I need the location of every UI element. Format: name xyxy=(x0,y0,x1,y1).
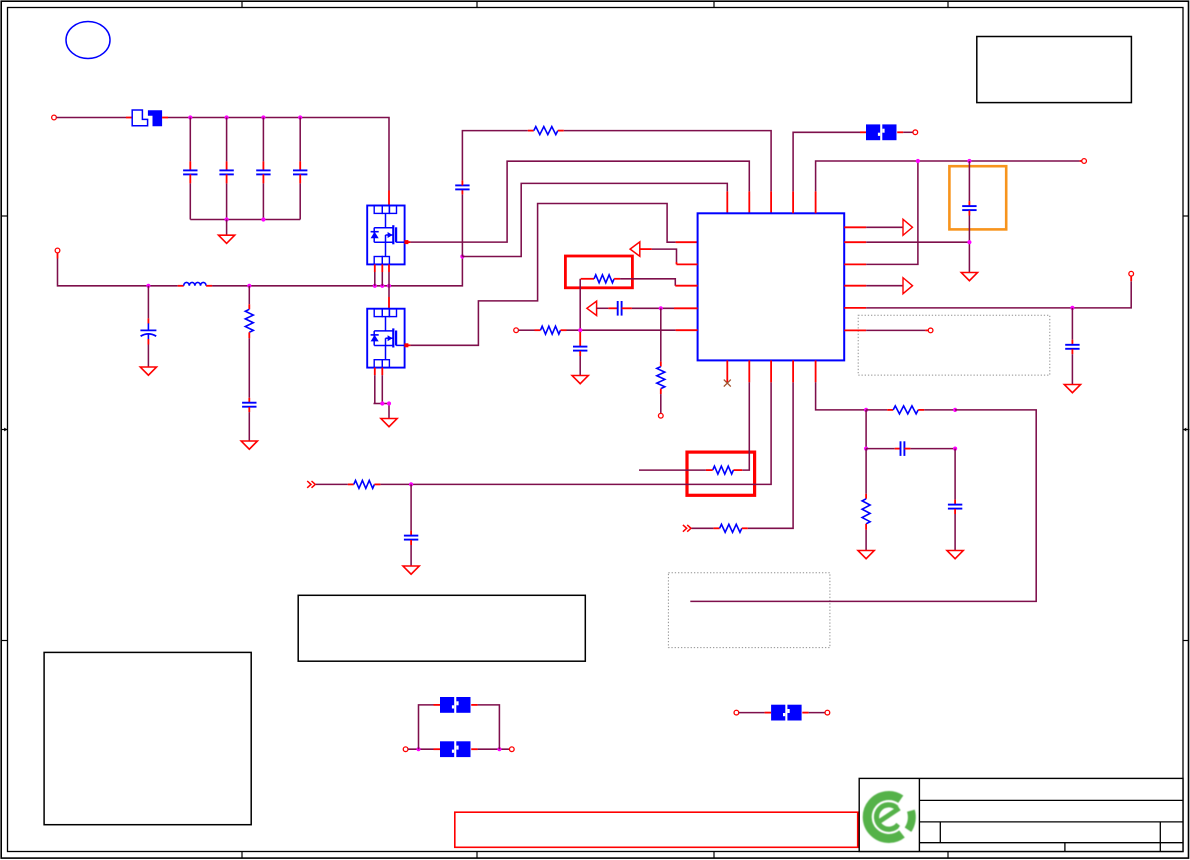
wire Q2 leg2 xyxy=(381,368,383,404)
no-connect pin xyxy=(724,360,731,386)
junction VIN rail 1 xyxy=(188,115,192,119)
wire R8 to U1 xyxy=(742,360,793,528)
ground GND5 xyxy=(572,376,588,384)
junction SW C5 xyxy=(146,284,150,288)
wire comp res down xyxy=(865,449,867,499)
ground GND6 xyxy=(961,273,977,281)
border center arrow left xyxy=(1,428,8,432)
capacitor C10 xyxy=(962,206,976,210)
wire comp to R9 xyxy=(866,409,893,411)
junction Q2 gnd 2 xyxy=(387,401,391,405)
junction FB xyxy=(578,328,582,332)
ground GND10 xyxy=(947,551,963,559)
junction C10 branch xyxy=(967,240,971,244)
wire C1 bottom xyxy=(189,174,191,219)
wire C5 branch xyxy=(147,286,149,324)
wire Q2 leg1 xyxy=(374,368,376,404)
port P4 xyxy=(514,328,519,333)
capacitor C14 xyxy=(948,505,962,509)
wire Q1 leg2 xyxy=(381,264,383,285)
port P5 xyxy=(1082,159,1087,164)
resistor R4 xyxy=(657,367,665,389)
capacitor C11 xyxy=(1065,345,1079,349)
wire R2 to U1 BST xyxy=(558,131,771,214)
wire C3 bottom xyxy=(262,174,264,219)
junction gnd rail 2 xyxy=(261,217,265,221)
wire L1 right pin xyxy=(206,285,212,287)
wire Q2 gate xyxy=(404,204,697,348)
resistor R5 xyxy=(541,326,561,334)
port P12 xyxy=(825,710,830,715)
wire C9 gnd xyxy=(579,351,581,376)
highlight orange box C10 xyxy=(949,166,1006,229)
wire SW sense to U1 xyxy=(462,183,727,256)
note rect center xyxy=(298,595,585,661)
jumper J3 xyxy=(440,741,471,757)
wire N2 to C8 xyxy=(597,307,618,309)
junction VIN rail 4 xyxy=(298,115,302,119)
fuse F1 xyxy=(132,110,162,126)
wire C2 bottom xyxy=(226,174,228,219)
junction J3 right xyxy=(497,747,501,751)
wire P9 to J3 xyxy=(408,748,440,750)
wire comp long xyxy=(690,410,1036,602)
jumper J4 xyxy=(440,697,471,713)
dashed box bottom xyxy=(668,573,830,648)
ground GND9 xyxy=(858,551,874,559)
wire C10 down xyxy=(968,211,970,273)
junction SW leg1 xyxy=(373,284,377,288)
wire R5 to U1 FB xyxy=(561,329,698,331)
junction VOUT xyxy=(1070,306,1074,310)
wire gnd stem xyxy=(226,220,228,236)
note rect top-right xyxy=(977,37,1132,103)
junction comp 2 xyxy=(953,408,957,412)
wire comp cap down xyxy=(954,449,956,505)
chevron port N6 xyxy=(683,525,691,532)
wire C1 top xyxy=(189,118,191,171)
junction N5 cap xyxy=(409,482,413,486)
wire C11 gnd xyxy=(1071,349,1073,384)
capacitor C9 xyxy=(573,347,587,351)
resistor R6 xyxy=(713,466,734,474)
ground GND4 xyxy=(381,419,397,427)
wire C2 top xyxy=(226,118,228,171)
transistor Q1 xyxy=(367,206,404,265)
resistor R7 xyxy=(354,480,375,488)
junction N2 xyxy=(659,306,663,310)
chevron port N5 xyxy=(307,481,315,488)
wire N2 resistor xyxy=(660,308,662,366)
junction comp 1 xyxy=(864,408,868,412)
ground GND2 xyxy=(140,367,156,375)
junction SW boot xyxy=(460,254,464,258)
wire P1 to F1 xyxy=(57,117,133,119)
wire C14 gnd xyxy=(954,509,956,551)
wire J4 loop right xyxy=(471,705,499,749)
capacitor C8 xyxy=(618,301,622,316)
wire R9 right xyxy=(918,409,955,411)
junction VCC 1 xyxy=(916,159,920,163)
wire Q1 leg3 xyxy=(388,264,390,285)
transistor Q2 xyxy=(367,309,404,368)
highlight red box R3 xyxy=(565,256,632,288)
capacitor C13 xyxy=(901,441,905,456)
wire C13 right xyxy=(904,448,955,450)
wire J3 to P10 xyxy=(471,748,509,750)
junction J3 left xyxy=(416,747,420,751)
wire P2 down xyxy=(58,253,178,286)
wire U1 to P7 xyxy=(844,329,928,331)
wire N1 to U1 xyxy=(640,249,698,264)
capacitor C6 xyxy=(242,403,256,407)
highlight red rect bottom xyxy=(455,812,858,847)
note rect bottom-left xyxy=(44,652,251,824)
wire VOUT cap xyxy=(1071,308,1073,345)
company logo xyxy=(867,795,912,838)
jumper J2 xyxy=(866,124,897,140)
junction SW R1 xyxy=(247,284,251,288)
junction Q2 gnd 1 xyxy=(380,401,384,405)
port P10 xyxy=(509,747,514,752)
junction comp 3 xyxy=(864,447,868,451)
port P8 xyxy=(913,130,918,135)
wire FB junction up xyxy=(580,279,594,330)
wire C4 bottom xyxy=(299,174,301,219)
wire J5 to P12 xyxy=(802,712,825,714)
op-amp U1 controller xyxy=(698,213,845,360)
wire P11 to J5 xyxy=(739,712,771,714)
wire C12 gnd xyxy=(410,540,412,566)
wire C5 gnd xyxy=(147,339,149,367)
wire J4 loop left xyxy=(419,705,441,749)
wire U1 to R6 xyxy=(733,360,749,470)
wire N5 to R7 xyxy=(316,483,354,485)
wire C3 top xyxy=(262,118,264,171)
wire U1 pin to VCC branch xyxy=(844,241,969,243)
wire U1 VOUT line xyxy=(844,276,1131,308)
wire C8 to U1 xyxy=(622,307,698,309)
resistor R1 xyxy=(245,309,253,332)
wire FB cap xyxy=(579,332,581,347)
junction VIN rail 2 xyxy=(225,115,229,119)
wire U1 to arrow N4 xyxy=(844,285,903,287)
wire comp down1 xyxy=(865,410,867,449)
wire R1 top xyxy=(248,286,250,310)
resistor R9 xyxy=(893,406,918,414)
note ellipse xyxy=(66,22,110,59)
capacitor C12 xyxy=(404,536,418,540)
wire cap gnd rail xyxy=(190,219,300,221)
junction VCC 2 xyxy=(967,159,971,163)
resistor R2 boot xyxy=(534,127,558,135)
wire U1 to VCC rail xyxy=(844,161,918,264)
wire Q2 gnd rail xyxy=(374,404,390,419)
capacitor C4 xyxy=(293,170,307,174)
port P1 VIN xyxy=(52,115,57,120)
wire N6 to R8 xyxy=(692,527,720,529)
wire R6 left xyxy=(639,469,713,471)
ground GND7 xyxy=(1064,385,1080,393)
port P3 xyxy=(658,413,663,418)
wire SW rail xyxy=(212,257,462,286)
resistor R8 xyxy=(720,524,742,532)
port P6 xyxy=(1129,271,1134,276)
port P11 xyxy=(734,710,739,715)
junction SW leg2 xyxy=(380,284,384,288)
junction gnd rail 1 xyxy=(225,217,229,221)
resistor R3 xyxy=(594,275,614,283)
wire VCC cap xyxy=(968,161,970,206)
wire Q1 leg1 xyxy=(374,264,376,285)
wire R10 gnd xyxy=(865,524,867,551)
inductor L1 xyxy=(184,282,206,285)
arrow port N4 xyxy=(903,278,913,294)
wire U1 to J2 xyxy=(793,132,866,213)
arrow port N2 xyxy=(587,301,597,315)
dashed box right xyxy=(858,315,1050,375)
wire R3 to U1 xyxy=(614,279,698,286)
highlight red box R6 xyxy=(687,452,755,495)
capacitor C3 xyxy=(256,170,270,174)
wire U1 to arrow N3 xyxy=(844,226,903,228)
arrow port N3 xyxy=(903,219,913,235)
wire J2 to P8 xyxy=(897,131,913,133)
title block xyxy=(859,778,1183,851)
wire SW to Q2 drain xyxy=(388,286,390,309)
wire comp cap link xyxy=(866,448,900,450)
wire N5 cap xyxy=(410,484,412,535)
wire L1 left pin xyxy=(178,285,184,287)
wire P4 to R5 xyxy=(519,329,541,331)
junction VIN rail 3 xyxy=(261,115,265,119)
wire C4 top xyxy=(299,118,301,171)
capacitor C2 xyxy=(219,170,233,174)
jumper J5 xyxy=(771,705,802,721)
wire R4 to P3 xyxy=(660,389,662,414)
junction comp 4 xyxy=(953,447,957,451)
border center arrow right xyxy=(1183,428,1189,432)
wire Q1 gate xyxy=(404,161,749,244)
wire R7 to U1 xyxy=(374,360,771,484)
ground GND3 xyxy=(241,441,257,449)
arrow port N1 xyxy=(630,242,640,256)
wire VCC line xyxy=(816,161,1082,213)
capacitor C7 boot xyxy=(455,185,469,189)
port P7 xyxy=(928,328,933,333)
capacitor C1 xyxy=(183,170,197,174)
wire boot RC xyxy=(462,131,533,186)
resistor R10 xyxy=(862,499,870,524)
wire R1 to C6 xyxy=(248,332,250,402)
ground GND1 xyxy=(219,235,235,243)
wire F1 to VIN rail xyxy=(162,118,389,206)
wire C6 gnd xyxy=(248,407,250,441)
junction SW leg3 xyxy=(387,284,391,288)
capacitor C5 polarized xyxy=(140,323,156,339)
port P2 SW xyxy=(55,248,60,253)
ground GND8 xyxy=(403,566,419,574)
port P9 xyxy=(403,747,408,752)
wire U1 comp net xyxy=(816,360,867,410)
wire boot cap xyxy=(461,190,463,257)
